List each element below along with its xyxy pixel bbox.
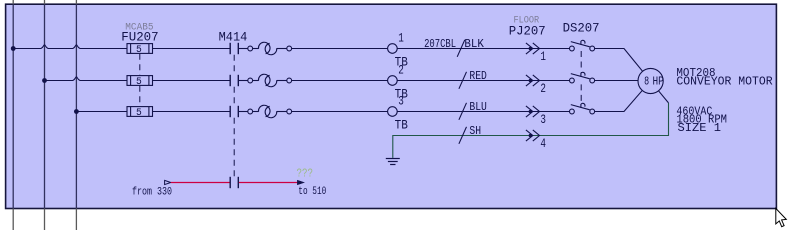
svg-text:RED: RED [469,70,487,83]
bus L3 [75,0,77,230]
wire phase 3 [76,90,642,111]
destination arrow to 510 [297,180,326,198]
fuse FU207 pole 3 [127,107,153,117]
contact M414 pole 3 [230,106,238,117]
bus L1 [12,0,14,230]
dashed link DS207 [580,51,582,104]
fuse FU207 pole 2 [127,76,153,86]
terminal TB pin 2 [388,64,409,102]
svg-text:M414: M414 [219,31,248,45]
svg-text:8: 8 [644,74,649,88]
wire phase 2 [45,77,639,81]
svg-text:2: 2 [540,82,546,96]
motor lead T3 [658,91,668,103]
svg-text:4: 4 [540,137,546,151]
terminal TB pin 3 [388,95,409,133]
wire phase 1 [13,45,643,72]
svg-text:3: 3 [398,95,404,109]
bus L2 [44,0,46,230]
svg-text:TB: TB [395,119,409,133]
svg-text:HP: HP [653,74,664,88]
dashed link FU207 [139,54,141,107]
plug PJ207 pin 4 [526,130,546,151]
disconnect DS207 pole 3 [570,103,595,114]
overload OL pole 2 [248,74,292,86]
red interconnect wire left [171,182,230,184]
svg-text:CONVEYOR MOTOR: CONVEYOR MOTOR [676,76,772,89]
svg-text:DS207: DS207 [563,21,600,35]
fuse FU207 pole 1 [127,44,153,54]
svg-text:PJ207: PJ207 [509,24,546,38]
contact M414 pole 2 [230,75,238,86]
mouse cursor [776,208,787,226]
disconnect DS207 pole 2 [570,72,595,83]
svg-text:5: 5 [136,107,142,119]
source arrow from 330 [132,180,172,198]
red interconnect wire right [239,182,298,184]
svg-text:to 510: to 510 [298,186,326,198]
overload OL pole 1 [248,42,292,54]
svg-text:BLK: BLK [464,38,484,51]
svg-text:3: 3 [540,113,546,127]
terminal TB pin 1 [388,32,409,70]
svg-text:1: 1 [540,50,546,64]
disconnect DS207 pole 1 [570,40,595,51]
svg-text:BLU: BLU [469,101,487,114]
wire label 207CBL/BLK [424,38,484,57]
dashed link M414 [233,55,235,177]
svg-text:SH: SH [469,125,481,138]
wire label /BLU [459,101,487,120]
wire SH shield [393,103,669,158]
contact M414 pole 1 [230,43,238,54]
wire label /SH [459,125,481,144]
svg-text:2: 2 [398,64,404,78]
svg-text:???: ??? [297,168,314,181]
motor MOT208 [638,68,664,93]
svg-text:5: 5 [136,44,142,56]
plug PJ207 pin 3 [526,106,546,127]
overload OL pole 3 [248,105,292,117]
svg-text:from 330: from 330 [132,187,172,199]
svg-text:207CBL: 207CBL [424,38,456,51]
junction phase 2 on bus L2 [42,78,47,83]
contact M414 aux [230,177,238,188]
plug PJ207 pin 1 [526,43,546,64]
junction phase 3 on bus L3 [74,109,79,114]
svg-text:1: 1 [398,32,404,46]
wire label /RED [459,70,487,89]
ground [386,159,400,165]
svg-text:FU207: FU207 [121,30,158,44]
junction phase 1 on bus L1 [11,46,16,51]
plug PJ207 pin 2 [526,75,546,96]
svg-text:SIZE 1: SIZE 1 [678,122,722,135]
svg-text:5: 5 [136,76,142,88]
